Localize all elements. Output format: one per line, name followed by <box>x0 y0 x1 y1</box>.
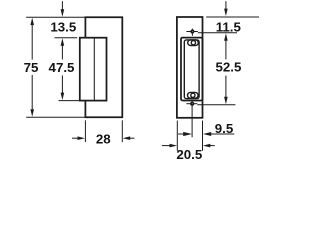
right view: keeper pocket outer <box>181 38 203 101</box>
dimension 47.5: line and arrows <box>61 45 63 93</box>
left view: strike body outline <box>85 17 122 117</box>
top screw hole <box>191 30 194 33</box>
left view: lip divider line <box>93 38 95 101</box>
dimension 75: line and arrows <box>31 24 33 111</box>
dimension 20.5: outside arrows <box>162 145 170 147</box>
right view: keeper pocket inner <box>184 40 199 99</box>
extension line: plate top (right view) <box>206 16 259 18</box>
bottom adjustment slot <box>188 92 199 98</box>
extension line: top screw center (11.5) <box>198 32 237 34</box>
dimension 9.5: outside arrows <box>178 133 184 135</box>
svg-text:75: 75 <box>24 60 39 75</box>
dimension 52.5: line and arrows <box>225 40 227 97</box>
svg-text:47.5: 47.5 <box>49 60 75 75</box>
bottom adjustment screw circle <box>191 93 195 97</box>
dimension 13.5: outside arrows <box>61 1 63 10</box>
extension line: plate bottom (left) <box>26 116 85 118</box>
svg-text:13.5: 13.5 <box>50 20 76 35</box>
left view: protruding lip box <box>80 38 107 101</box>
top screw hole crosshair <box>186 31 197 33</box>
top adjustment screw circle <box>191 41 195 45</box>
dimension 11.5: outside arrows <box>225 1 227 9</box>
svg-text:11.5: 11.5 <box>216 20 242 35</box>
extension lines for 20.5 <box>177 121 202 151</box>
dimension 28: outside arrows <box>72 137 79 139</box>
extension lines for 28 <box>85 120 122 142</box>
bottom screw hole crosshair <box>186 103 197 105</box>
svg-text:28: 28 <box>96 132 111 147</box>
bottom screw hole <box>191 102 194 105</box>
extension line: bottom screw center (52.5) <box>197 104 235 106</box>
extension line: plate top (left) <box>26 16 85 18</box>
svg-text:9.5: 9.5 <box>215 121 234 136</box>
right view: faceplate outline <box>177 17 203 118</box>
top adjustment slot <box>188 40 199 46</box>
extension line: lip top (left) <box>55 37 78 39</box>
bottom screw centerline <box>191 101 193 137</box>
extension line: lip bottom (left) <box>59 100 80 102</box>
svg-text:20.5: 20.5 <box>176 147 202 160</box>
svg-text:52.5: 52.5 <box>215 60 241 75</box>
